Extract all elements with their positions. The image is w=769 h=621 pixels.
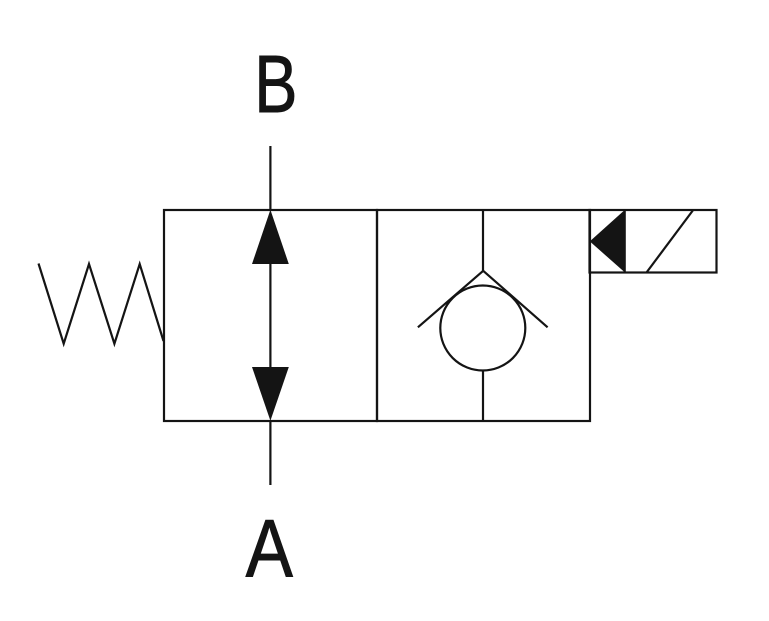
up arrow head (flow arrow top): [252, 210, 289, 264]
check valve upper wire: [482, 210, 484, 272]
svg-text:B: B: [254, 38, 297, 130]
check valve lower wire: [482, 371, 484, 421]
down arrow head (flow arrow bottom): [252, 367, 289, 421]
check valve poppet ball circle: [440, 286, 525, 371]
solenoid box: [590, 210, 717, 273]
check valve seat V: [418, 271, 548, 328]
valve body position box left: [164, 210, 377, 421]
valve body position box right: [377, 210, 590, 421]
solenoid triangle base line: [624, 210, 626, 273]
port B wire: [269, 146, 271, 211]
flow path line between arrows: [269, 262, 271, 369]
solenoid diagonal stroke: [647, 211, 693, 273]
svg-text:A: A: [246, 504, 293, 595]
solenoid armature triangle (filled, pointing left): [590, 210, 625, 272]
spring (return spring, left): [39, 264, 164, 344]
port A wire: [269, 420, 271, 485]
